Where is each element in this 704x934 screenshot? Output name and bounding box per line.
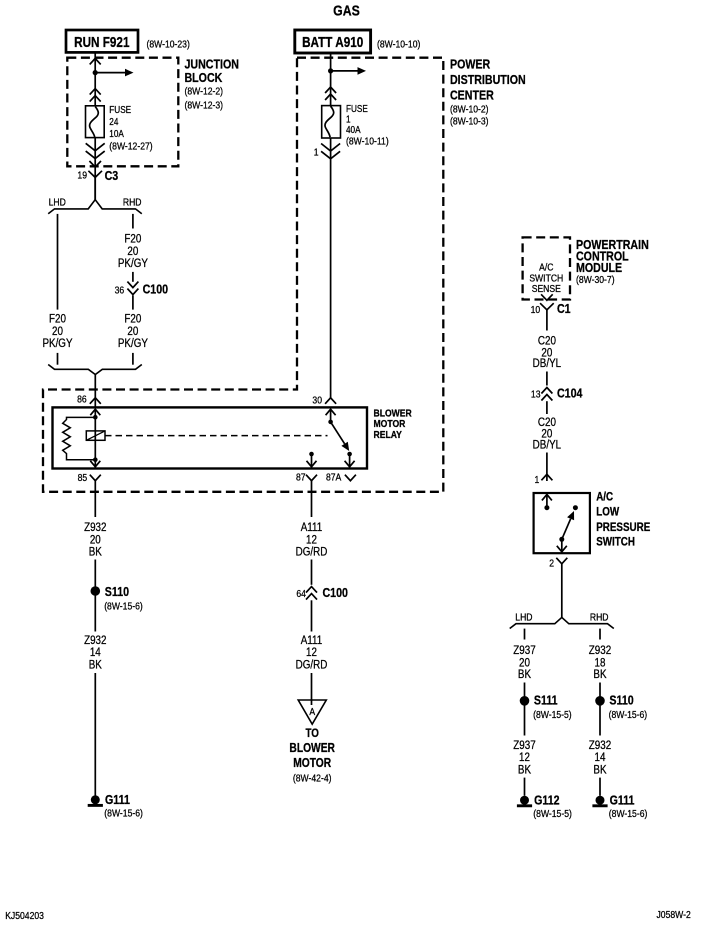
svg-text:SENSE: SENSE bbox=[532, 283, 561, 295]
svg-text:(8W-10-23): (8W-10-23) bbox=[147, 39, 190, 51]
svg-text:C1: C1 bbox=[557, 301, 571, 316]
svg-text:G111: G111 bbox=[105, 792, 130, 807]
svg-text:BK: BK bbox=[518, 668, 532, 681]
svg-text:SWITCH: SWITCH bbox=[596, 536, 635, 549]
svg-text:A/C: A/C bbox=[596, 491, 613, 504]
svg-text:(8W-15-5): (8W-15-5) bbox=[533, 808, 572, 820]
svg-text:S110: S110 bbox=[105, 584, 130, 599]
svg-text:RUN F921: RUN F921 bbox=[74, 34, 129, 50]
svg-text:MODULE: MODULE bbox=[576, 260, 622, 275]
svg-text:(8W-10-3): (8W-10-3) bbox=[450, 116, 489, 128]
svg-text:(8W-15-6): (8W-15-6) bbox=[104, 808, 143, 820]
svg-text:(8W-15-6): (8W-15-6) bbox=[609, 808, 648, 820]
svg-text:BLOWER: BLOWER bbox=[289, 742, 335, 755]
svg-text:(8W-42-4): (8W-42-4) bbox=[293, 773, 332, 785]
svg-text:BK: BK bbox=[518, 763, 532, 776]
svg-text:(8W-30-7): (8W-30-7) bbox=[576, 274, 615, 286]
svg-text:64: 64 bbox=[296, 588, 306, 600]
svg-text:LHD: LHD bbox=[515, 612, 532, 624]
svg-text:Z932: Z932 bbox=[84, 634, 106, 647]
svg-text:86: 86 bbox=[77, 394, 87, 406]
svg-text:FUSE: FUSE bbox=[109, 104, 131, 115]
svg-text:DB/YL: DB/YL bbox=[533, 357, 561, 370]
svg-text:DG/RD: DG/RD bbox=[296, 659, 328, 672]
svg-text:85: 85 bbox=[78, 472, 88, 484]
svg-text:40A: 40A bbox=[346, 124, 361, 135]
svg-text:G111: G111 bbox=[610, 793, 635, 808]
svg-text:(8W-15-5): (8W-15-5) bbox=[533, 709, 572, 721]
svg-text:C104: C104 bbox=[557, 385, 583, 400]
svg-text:RHD: RHD bbox=[590, 612, 609, 624]
svg-text:(8W-15-6): (8W-15-6) bbox=[104, 601, 143, 613]
svg-text:LHD: LHD bbox=[49, 197, 66, 209]
svg-text:(8W-12-3): (8W-12-3) bbox=[185, 100, 224, 112]
svg-text:TO: TO bbox=[305, 727, 319, 740]
svg-text:BK: BK bbox=[593, 763, 607, 776]
svg-text:RHD: RHD bbox=[123, 197, 142, 209]
svg-text:BK: BK bbox=[89, 545, 103, 558]
svg-text:LOW: LOW bbox=[596, 506, 620, 519]
svg-text:19: 19 bbox=[77, 170, 87, 182]
svg-text:C100: C100 bbox=[322, 585, 348, 600]
svg-text:PK/GY: PK/GY bbox=[42, 337, 73, 350]
svg-text:CENTER: CENTER bbox=[450, 88, 494, 103]
svg-text:C3: C3 bbox=[105, 168, 119, 183]
svg-text:MOTOR: MOTOR bbox=[293, 757, 332, 770]
svg-text:F20: F20 bbox=[124, 233, 141, 246]
svg-text:(8W-12-2): (8W-12-2) bbox=[185, 86, 224, 98]
svg-text:Z937: Z937 bbox=[513, 644, 535, 657]
svg-text:PK/GY: PK/GY bbox=[118, 257, 149, 270]
svg-text:20: 20 bbox=[127, 245, 138, 258]
svg-text:1: 1 bbox=[314, 147, 319, 159]
svg-text:RELAY: RELAY bbox=[374, 429, 403, 441]
svg-text:(8W-10-10): (8W-10-10) bbox=[377, 39, 420, 51]
svg-text:PRESSURE: PRESSURE bbox=[596, 521, 650, 534]
svg-text:BLOCK: BLOCK bbox=[185, 70, 223, 85]
svg-text:S111: S111 bbox=[534, 693, 558, 708]
svg-text:(8W-12-27): (8W-12-27) bbox=[109, 141, 152, 153]
svg-text:A111: A111 bbox=[301, 634, 323, 647]
svg-text:C100: C100 bbox=[143, 281, 169, 296]
svg-text:Z932: Z932 bbox=[589, 739, 611, 752]
svg-text:S110: S110 bbox=[609, 693, 634, 708]
svg-text:BK: BK bbox=[89, 659, 103, 672]
svg-text:GAS: GAS bbox=[333, 2, 360, 18]
svg-text:PK/GY: PK/GY bbox=[118, 337, 149, 350]
svg-text:DISTRIBUTION: DISTRIBUTION bbox=[450, 72, 526, 87]
svg-text:(8W-10-11): (8W-10-11) bbox=[346, 136, 389, 148]
svg-text:(8W-10-2): (8W-10-2) bbox=[450, 104, 489, 116]
svg-text:1: 1 bbox=[535, 474, 540, 486]
svg-text:BK: BK bbox=[593, 668, 607, 681]
svg-text:(8W-15-6): (8W-15-6) bbox=[609, 709, 648, 721]
svg-text:87: 87 bbox=[296, 472, 306, 484]
svg-text:Z932: Z932 bbox=[589, 644, 611, 657]
svg-text:KJ504203: KJ504203 bbox=[5, 910, 44, 922]
svg-text:36: 36 bbox=[115, 285, 125, 297]
svg-text:12: 12 bbox=[306, 646, 317, 659]
svg-text:BATT A910: BATT A910 bbox=[302, 34, 363, 50]
svg-text:1: 1 bbox=[346, 114, 351, 125]
svg-text:Z937: Z937 bbox=[513, 739, 535, 752]
svg-text:G112: G112 bbox=[534, 793, 560, 808]
svg-text:10: 10 bbox=[531, 304, 541, 316]
svg-text:2: 2 bbox=[549, 558, 554, 570]
svg-text:10A: 10A bbox=[109, 128, 124, 139]
svg-text:A: A bbox=[309, 706, 315, 718]
svg-text:DG/RD: DG/RD bbox=[296, 545, 328, 558]
svg-text:FUSE: FUSE bbox=[346, 103, 368, 114]
svg-text:20: 20 bbox=[52, 325, 63, 338]
svg-text:14: 14 bbox=[90, 646, 101, 659]
svg-text:J058W-2: J058W-2 bbox=[657, 909, 691, 921]
svg-text:DB/YL: DB/YL bbox=[533, 439, 561, 452]
svg-text:24: 24 bbox=[109, 116, 118, 127]
svg-text:13: 13 bbox=[531, 389, 541, 401]
svg-text:87A: 87A bbox=[326, 472, 342, 484]
svg-text:30: 30 bbox=[312, 395, 322, 407]
svg-text:POWER: POWER bbox=[450, 57, 491, 72]
svg-text:20: 20 bbox=[127, 325, 138, 338]
